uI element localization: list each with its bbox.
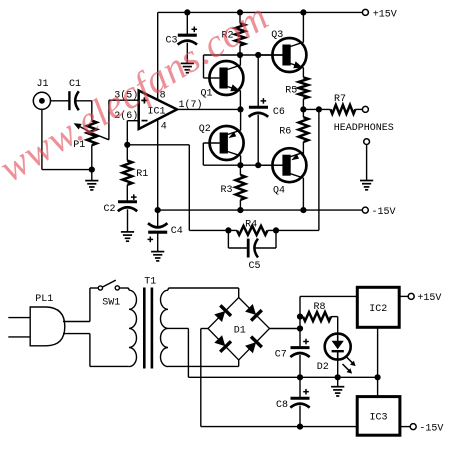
node driver midpoint xyxy=(237,106,243,112)
wire Q3 emitter to R5 xyxy=(302,68,304,78)
capacitor C5 xyxy=(228,230,276,272)
svg-text:R3: R3 xyxy=(221,185,233,196)
resistor R3 xyxy=(221,165,246,210)
svg-text:C2: C2 xyxy=(104,204,116,215)
svg-text:4: 4 xyxy=(161,122,167,133)
svg-text:PL1: PL1 xyxy=(35,294,53,305)
resistor R4 xyxy=(189,219,319,235)
wire 0V rail xyxy=(188,376,377,378)
resistor R8 xyxy=(300,302,338,321)
ground (C3) xyxy=(181,63,194,72)
node C8 negative rail junction xyxy=(297,424,303,430)
wire IC1 output xyxy=(177,108,241,110)
svg-text:R6: R6 xyxy=(279,127,291,138)
svg-text:-15V: -15V xyxy=(372,207,396,218)
transistor Q3 xyxy=(258,30,306,72)
capacitor C7 xyxy=(275,329,310,378)
ground (0V reference) xyxy=(331,377,344,396)
transformer T1 primary winding xyxy=(128,288,137,367)
pin label 8 xyxy=(160,91,166,102)
node headphone return terminal xyxy=(364,139,370,145)
node bridge positive junction xyxy=(297,325,303,331)
node headphone output terminal xyxy=(334,106,394,134)
wire C1 to P1 top xyxy=(76,101,92,121)
ground (C4) xyxy=(151,252,164,261)
wire IC2 ground pin xyxy=(377,327,379,377)
wire Q2 base riser xyxy=(202,143,204,165)
pin label 2(6) xyxy=(114,110,138,122)
resistor R5 xyxy=(285,77,308,109)
resistor R2 xyxy=(222,12,245,55)
node C6 bottom junction xyxy=(255,162,261,168)
svg-text:R5: R5 xyxy=(285,86,297,97)
svg-text:D1: D1 xyxy=(234,326,246,337)
transistor Q2 xyxy=(199,124,244,160)
wire bridge negative to IC3 input xyxy=(201,329,357,427)
wire upper base bus xyxy=(204,55,283,78)
node P1 ground junction xyxy=(89,167,95,173)
ground (headphones) xyxy=(360,181,373,190)
wire secondary bottom to bridge xyxy=(168,360,239,366)
wire plug neutral to primary bottom xyxy=(63,334,129,367)
node Q3 collector rail junction xyxy=(300,9,306,15)
wire IC3 output xyxy=(400,426,410,428)
svg-text:R7: R7 xyxy=(334,94,346,105)
svg-text:+15V: +15V xyxy=(417,293,441,304)
svg-text:J1: J1 xyxy=(37,79,49,90)
regulator IC2 xyxy=(357,287,399,327)
transistor Q1 xyxy=(201,61,244,100)
transistor Q4 xyxy=(258,148,306,196)
wire output row to R7 xyxy=(303,108,330,110)
node D2 0V junction xyxy=(335,374,341,380)
wire lower base bus xyxy=(203,164,282,166)
resistor R7 xyxy=(331,94,363,114)
wire IC2 input xyxy=(300,296,357,328)
wire SW1 to primary top xyxy=(119,287,127,289)
wire -15V rail (amplifier) xyxy=(158,209,363,211)
svg-text:Q4: Q4 xyxy=(273,186,285,197)
svg-text:-15V: -15V xyxy=(419,423,443,434)
capacitor C3 xyxy=(166,12,198,63)
pin label 3(5) xyxy=(114,90,138,102)
node C7 0V junction xyxy=(297,374,303,380)
wire IC1 pin 8 to +15V rail xyxy=(157,12,159,100)
node +15V terminal xyxy=(362,9,396,20)
wire plug live to SW1 xyxy=(63,288,98,322)
capacitor C6 xyxy=(249,55,285,165)
node -15V output terminal xyxy=(410,423,443,434)
transformer T1 secondary winding xyxy=(161,288,170,367)
op-amp IC1 xyxy=(139,91,177,130)
connector J1 xyxy=(33,79,50,109)
node -15V terminal (amplifier) xyxy=(362,207,395,218)
svg-text:HEADPHONES: HEADPHONES xyxy=(334,123,394,134)
svg-text:R8: R8 xyxy=(314,302,326,313)
wire feedback tap to R4 row xyxy=(318,109,320,230)
wire IC3 ground pin xyxy=(377,377,379,396)
LED D2 xyxy=(317,317,356,378)
node C4 / pin4 rail junction xyxy=(155,207,161,213)
svg-text:C7: C7 xyxy=(275,350,287,361)
wire headphone return to ground xyxy=(366,145,368,181)
node R8 junction xyxy=(297,314,303,320)
node R2 rail junction xyxy=(237,9,243,15)
node output (R5/R6) xyxy=(300,106,306,112)
svg-text:T1: T1 xyxy=(144,276,156,287)
node R3 / Q2 collector junction xyxy=(237,162,243,168)
capacitor C2 xyxy=(104,194,138,232)
connector PL1 (mains plug) xyxy=(8,294,65,346)
svg-text:D2: D2 xyxy=(317,362,329,373)
capacitor C1 xyxy=(69,79,81,110)
wire IC1 inverting input xyxy=(127,121,138,145)
capacitor C8 xyxy=(276,377,310,426)
resistor R1 xyxy=(123,145,149,202)
ground (input) xyxy=(85,170,98,190)
svg-text:IC2: IC2 xyxy=(369,304,387,315)
svg-text:Q2: Q2 xyxy=(199,124,211,135)
svg-text:C4: C4 xyxy=(171,226,183,237)
node +15V output terminal xyxy=(408,293,441,304)
node R2 / Q1 collector junction xyxy=(237,52,243,58)
switch SW1 xyxy=(98,280,120,308)
svg-text:IC3: IC3 xyxy=(370,413,388,424)
pin label 4 xyxy=(161,122,167,133)
wire P1 bottom / J1 ground return xyxy=(42,109,92,169)
svg-text:R4: R4 xyxy=(245,219,257,230)
wire J1 to C1 xyxy=(51,100,69,102)
wire Q3 collector to +15V rail xyxy=(302,12,304,42)
wire IC1 pin 4 to -15V rail xyxy=(157,120,159,210)
wire Q1 emitter to midpoint xyxy=(239,91,241,110)
svg-text:C5: C5 xyxy=(249,261,261,272)
wire Q2 emitter xyxy=(240,109,242,130)
svg-text:SW1: SW1 xyxy=(102,297,120,308)
node C6 top junction xyxy=(255,52,261,58)
wire Q1 collector xyxy=(239,55,241,65)
wire Q4 collector to -15V rail xyxy=(302,178,304,210)
node C3 rail junction xyxy=(184,9,190,15)
wire P1 wiper to IC1 + input xyxy=(109,100,139,140)
svg-text:R1: R1 xyxy=(136,169,148,180)
wire secondary top to bridge xyxy=(170,288,239,298)
ground (C2) xyxy=(121,232,134,241)
capacitor C4 xyxy=(148,210,183,252)
regulator IC3 xyxy=(357,397,400,436)
wire feedback from inverting input to R4 xyxy=(127,145,189,231)
svg-text:C1: C1 xyxy=(69,79,81,90)
node R4 left / C5 junction xyxy=(225,227,231,233)
svg-text:+15V: +15V xyxy=(373,9,397,20)
resistor R6 xyxy=(279,109,308,155)
pin label 1(7) xyxy=(179,99,203,111)
node R4 right / C5 junction xyxy=(273,227,279,233)
rectifier bridge D1 xyxy=(208,298,270,361)
node R3 rail junction xyxy=(237,207,243,213)
wire IC2 output xyxy=(399,295,408,297)
node Q4 collector rail junction xyxy=(300,207,306,213)
node inverting input junction xyxy=(124,142,130,148)
svg-text:Q1: Q1 xyxy=(201,89,213,100)
svg-text:C6: C6 xyxy=(273,107,285,118)
wire Q2 collector xyxy=(240,156,242,166)
watermark xyxy=(0,0,276,191)
node feedback tap xyxy=(316,106,322,112)
svg-text:C8: C8 xyxy=(276,400,288,411)
potentiometer P1 xyxy=(73,121,109,151)
wire bridge positive to C7/IC2 xyxy=(270,328,301,330)
wire +15V rail xyxy=(158,11,363,13)
transformer T1 core xyxy=(144,276,156,368)
node regulator ground junction xyxy=(375,374,381,380)
wire center tap to 0V rail xyxy=(168,328,188,377)
